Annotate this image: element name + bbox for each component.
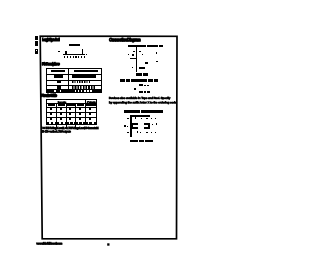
svg-text:Pin Descriptions: Pin Descriptions (42, 62, 60, 67)
svg-text:Z0–Z3 = active LOW outputs: Z0–Z3 = active LOW outputs (41, 129, 71, 133)
svg-text:Inputs: Inputs (58, 100, 67, 104)
svg-text:by appending the suffix letter: by appending the suffix letter X to the … (109, 101, 177, 105)
svg-text:Connection Diagram: Connection Diagram (109, 37, 141, 42)
svg-text:Devices also available in Tape: Devices also available in Tape and Reel.… (109, 96, 171, 100)
svg-text:Function Table: Function Table (41, 93, 57, 98)
svg-text:Logic Symbol: Logic Symbol (42, 37, 60, 42)
svg-text:Outputs: Outputs (87, 100, 96, 104)
svg-text:www.fairchildsemi.com: www.fairchildsemi.com (36, 241, 63, 245)
